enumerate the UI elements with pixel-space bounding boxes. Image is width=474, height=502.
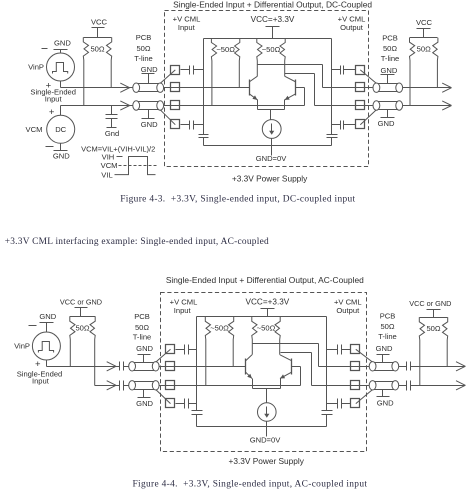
DC source VCM (47, 115, 75, 143)
wire: input line 1 (top) (61, 87, 250, 89)
svg-text:Single-Ended Input + Different: Single-Ended Input + Differential Output… (173, 0, 372, 10)
arrow on input line 1 (120, 83, 129, 92)
transmission line T2 (input bottom) (133, 101, 164, 110)
svg-text:T-line: T-line (133, 332, 152, 341)
svg-text:50Ω: 50Ω (417, 45, 431, 54)
arrow on output line 1 (442, 83, 451, 92)
svg-text:VCC: VCC (91, 17, 108, 26)
wire: VinP to input line 1 (60, 81, 62, 88)
pulse source VinP (AC figure) (32, 332, 60, 360)
capacitor from pin 4 to VCC bus (AC figure) (176, 399, 197, 409)
input pin square 4 (171, 120, 180, 129)
transmission line T3 (output top, AC figure) (369, 362, 398, 371)
ground symbol above VinP source (54, 38, 72, 52)
svg-text:+V CML: +V CML (334, 297, 362, 306)
wire and ground below VCM (53, 144, 70, 161)
wire: output line 2 (AC figure) (312, 385, 466, 387)
transmission line T3 (output top) (373, 83, 403, 92)
current source I1 (262, 120, 281, 139)
right VCC bus with decoupling capacitor (327, 39, 338, 146)
diagonal wire T2 to input pin 4 (160, 110, 175, 125)
ground below transmission line T2 (AC figure) (136, 390, 153, 409)
wire: output line 1 (AC figure) (319, 366, 466, 368)
svg-text:+: + (49, 107, 55, 118)
wire: Q2 collector to output line 2 (285, 74, 315, 106)
wire: GND bottom rail (AC figure) (197, 426, 327, 428)
input pin square 2 (AC figure) (166, 362, 175, 371)
transistor Q1 (left of diff pair) (249, 76, 257, 100)
ground above transmission line T1 (141, 65, 158, 83)
svg-text:50Ω: 50Ω (380, 322, 394, 331)
label Single-Ended Input (30, 88, 76, 104)
caption Figure 4-3 (120, 195, 355, 205)
dashed box: internal chip boundary, DC-coupled figure (165, 11, 369, 167)
resistor ~50ohm R1 (internal termination, AC figure) (205, 317, 233, 386)
svg-text:VCM: VCM (101, 161, 118, 170)
wire: line 2 to VCM source (60, 106, 62, 116)
capacitor from pin 4 to VCC bus (181, 121, 204, 130)
wire: GND bottom rail (204, 145, 332, 147)
svg-text:GND: GND (53, 151, 70, 160)
heading +3.3V CML interfacing example (5, 236, 269, 247)
capacitor from VCC bus to output pin A (332, 66, 356, 75)
svg-text:Input: Input (174, 306, 192, 315)
svg-text:50Ω: 50Ω (136, 44, 150, 53)
svg-text:DC: DC (55, 125, 66, 134)
label +V CML Output (338, 14, 366, 32)
wire: input line 2 (bottom) (61, 105, 305, 107)
ground below transmission line T4 (378, 110, 395, 129)
coupling capacitor on input line 1 (120, 362, 124, 371)
svg-text:Figure 4-3. +3.3V, Single-end: Figure 4-3. +3.3V, Single-ended input, D… (120, 195, 355, 205)
diagonal wire output pin D to T4 (AC figure) (356, 390, 373, 404)
svg-text:PCB: PCB (136, 33, 152, 42)
svg-text:+: + (35, 359, 41, 370)
wire: VCC top rail (204, 38, 332, 40)
arrow on output line 2 (442, 101, 451, 110)
transistor Q2 (right of diff pair) (285, 76, 296, 100)
label GND=0V (AC figure) (250, 436, 282, 445)
diagonal wire output pin D to T4 (360, 110, 376, 125)
svg-text:GND: GND (136, 399, 153, 408)
capacitor from VCC bus to output pin A (AC figure) (327, 345, 351, 355)
svg-text:GND: GND (141, 120, 158, 129)
wire: output line 2 (315, 105, 452, 107)
svg-text:~50Ω: ~50Ω (210, 324, 229, 333)
svg-text:50Ω: 50Ω (383, 44, 397, 53)
title: Single-Ended Input + Differential Output, AC-Coupled (166, 275, 364, 285)
label PCB 50ohm T-line (input side, AC figure) (133, 312, 152, 342)
svg-text:+V CML: +V CML (170, 297, 198, 306)
transmission line T1 (input top, AC figure) (129, 362, 159, 371)
svg-text:+V CML: +V CML (338, 14, 366, 23)
svg-text:T-line: T-line (378, 332, 397, 341)
arrow on output line 1 (AC figure) (456, 362, 465, 371)
current source I1 (AC figure) (258, 403, 277, 422)
svg-text:~50Ω: ~50Ω (216, 45, 235, 54)
left VCC bus with decoupling capacitor (199, 39, 209, 146)
wire: common emitter node (258, 100, 285, 120)
svg-text:~50Ω: ~50Ω (257, 324, 276, 333)
svg-text:VCC: VCC (416, 18, 433, 27)
arrow on input line 2 (120, 101, 129, 110)
wire: output line 1 (323, 87, 452, 89)
svg-text:Input: Input (45, 94, 63, 103)
label PCB 50ohm T-line (output side) (381, 33, 400, 63)
svg-text:+3.3V Power Supply: +3.3V Power Supply (228, 456, 304, 466)
VCC supply symbol (right outer) (416, 18, 433, 37)
label VinP (28, 63, 44, 72)
svg-text:T-line: T-line (134, 54, 153, 63)
svg-text:Input: Input (32, 377, 50, 386)
pulse source VinP (47, 53, 75, 81)
wire: Q2 base to input line 2 (AC figure) (292, 367, 301, 386)
svg-text:Gnd: Gnd (105, 129, 119, 138)
plus polarity mark at VinP (46, 81, 52, 92)
svg-text:~50Ω: ~50Ω (262, 45, 281, 54)
coupling capacitor on output line 1 (407, 362, 411, 371)
diagonal wire T2 to input pin 4 (AC figure) (156, 390, 171, 404)
right VCC bus with decoupling capacitor (AC figure) (322, 317, 333, 427)
svg-text:GND: GND (378, 119, 395, 128)
diagonal wire output pin A to T3 (AC figure) (356, 349, 373, 362)
output pin square D (AC figure) (351, 399, 360, 408)
diagonal wire T1 to input pin 1 (160, 70, 175, 84)
transistor Q1 (AC figure) (246, 355, 253, 379)
label +V CML Input (AC figure) (170, 297, 198, 315)
svg-text:VinP: VinP (28, 63, 44, 72)
VCC supply symbol (left outer) (91, 17, 108, 37)
svg-text:GND=0V: GND=0V (250, 436, 282, 445)
transmission line T2 (input bottom, AC figure) (129, 381, 159, 390)
VCC or GND supply symbol (right outer, AC figure) (409, 299, 451, 318)
resistor ~50ohm R2 (internal load, AC figure) (252, 317, 281, 355)
svg-text:Input: Input (178, 23, 196, 32)
svg-text:Output: Output (340, 23, 364, 32)
output pin square B (356, 83, 365, 92)
wire: VinP to input line 1 (AC figure) (46, 361, 48, 367)
wire: input line 2 (AC figure) (95, 385, 301, 387)
input pin square 1 (171, 66, 180, 75)
dashed box: internal chip boundary, AC-coupled figure (161, 293, 367, 452)
resistor 50ohm output termination (right outer) (410, 38, 438, 106)
arrow on input line 2 (AC figure) (107, 381, 116, 390)
resistor 50ohm input termination (left outer) (83, 37, 111, 105)
output pin square A (AC figure) (351, 345, 360, 354)
wire: Q1 collector to output line 1 (AC figure) (253, 344, 319, 367)
output pin square D (356, 120, 365, 129)
svg-text:VCM=VIL+(VIH-VIL)/2: VCM=VIL+(VIH-VIL)/2 (81, 145, 155, 154)
label VCM=VIL+(VIH-VIL)/2 and waveform (81, 145, 156, 180)
minus polarity mark below VCM (46, 146, 54, 148)
wire: current source to ground rail (AC figure) (266, 422, 268, 437)
resistor ~50ohm R1 (internal termination) (211, 38, 239, 106)
svg-text:VCC or GND: VCC or GND (409, 299, 451, 308)
VCC=+3.3V supply symbol (251, 15, 295, 39)
svg-text:50Ω: 50Ω (90, 44, 104, 53)
arrow on output line 2 (AC figure) (456, 381, 465, 390)
output pin square B (AC figure) (351, 362, 360, 371)
transmission line T4 (output bottom, AC figure) (369, 381, 398, 390)
plus polarity mark at VCM (49, 107, 55, 118)
input pin square 2 (171, 83, 180, 92)
capacitor from pin 1 to VCC bus (181, 66, 204, 75)
output pin square C (356, 101, 365, 110)
svg-text:PCB: PCB (382, 33, 398, 42)
label +V CML Output (AC figure) (334, 297, 362, 315)
plus polarity mark at VinP (AC figure) (35, 359, 41, 370)
svg-text:50Ω: 50Ω (75, 324, 89, 333)
svg-text:GND: GND (376, 344, 393, 353)
svg-text:PCB: PCB (380, 311, 396, 320)
diagonal wire T1 to input pin 1 (AC figure) (156, 349, 171, 362)
label +V CML Input (173, 14, 201, 32)
output pin square C (AC figure) (351, 381, 360, 390)
input pin square 3 (AC figure) (166, 381, 175, 390)
svg-text:GND: GND (380, 66, 397, 75)
ground above transmission line T3 (380, 66, 397, 84)
ground below transmission line T2 (141, 110, 158, 130)
left VCC bus with decoupling capacitor (AC figure) (192, 317, 203, 427)
svg-text:+3.3V CML interfacing example:: +3.3V CML interfacing example: Single-en… (5, 236, 269, 247)
label GND=0V (256, 154, 288, 163)
wire: current source to ground rail (271, 139, 273, 156)
svg-text:+V CML: +V CML (173, 14, 201, 23)
wire: Q1 collector to output line 1 (258, 65, 323, 88)
capacitor from VCC bus to output pin D (332, 121, 356, 130)
svg-text:GND: GND (136, 344, 153, 353)
svg-text:VinP: VinP (14, 342, 30, 351)
label PCB 50ohm T-line (output side, AC figure) (378, 311, 397, 341)
svg-text:VCC or GND: VCC or GND (60, 298, 102, 307)
output pin square A (356, 66, 365, 75)
capacitor from pin 1 to VCC bus (AC figure) (176, 345, 197, 355)
wire: Q2 collector to output line 2 (AC figure) (281, 353, 312, 386)
ground above transmission line T1 (AC figure) (136, 344, 153, 362)
svg-text:VCC=+3.3V: VCC=+3.3V (251, 15, 295, 24)
capacitor from VCC bus to output pin D (AC figure) (327, 399, 351, 409)
svg-text:GND: GND (54, 38, 71, 47)
resistor 50ohm output termination (right outer, AC figure) (419, 317, 447, 385)
svg-text:Single-Ended Input + Different: Single-Ended Input + Differential Output… (166, 275, 364, 285)
ground below transmission line T4 (AC figure) (377, 390, 395, 408)
label +3.3V Power Supply (AC figure) (228, 456, 304, 466)
wire: Q2 base to input line 2 (296, 88, 305, 106)
svg-text:VIL: VIL (101, 171, 112, 180)
wire: common emitter node (AC figure) (253, 379, 281, 403)
label Single-Ended Input (AC figure) (17, 369, 63, 385)
transistor Q2 (AC figure) (280, 355, 292, 379)
label PCB 50ohm T-line (input side) (134, 33, 153, 63)
minus polarity mark at VinP (AC figure) (29, 325, 37, 327)
svg-text:VCM: VCM (26, 125, 43, 134)
label VCM (26, 125, 43, 134)
svg-text:GND: GND (39, 312, 56, 321)
ground above transmission line T3 (AC figure) (376, 344, 393, 362)
coupling capacitor on output line 2 (407, 381, 411, 391)
label VinP (AC figure) (14, 342, 30, 351)
caption Figure 4-4 (133, 479, 368, 489)
wire: input line 1 (AC figure) (47, 366, 246, 368)
svg-text:50Ω: 50Ω (135, 323, 149, 332)
svg-text:GND: GND (141, 65, 158, 74)
svg-text:50Ω: 50Ω (426, 324, 440, 333)
svg-text:Output: Output (336, 306, 360, 315)
transmission line T4 (output bottom) (373, 101, 403, 110)
resistor 50ohm input termination (left outer, AC figure) (70, 317, 96, 386)
VCC or GND supply symbol (left outer, AC figure) (60, 298, 102, 317)
resistor ~50ohm R2 (internal load) (257, 38, 286, 76)
svg-text:GND: GND (377, 399, 394, 408)
svg-text:T-line: T-line (381, 54, 400, 63)
svg-text:VCC=+3.3V: VCC=+3.3V (246, 298, 290, 307)
input pin square 1 (AC figure) (166, 345, 175, 354)
ground symbol above VinP source (AC figure) (39, 312, 56, 332)
input pin square 3 (171, 101, 180, 110)
diagonal wire output pin A to T3 (360, 70, 376, 84)
bypass capacitor on line 2 with Gnd (105, 106, 119, 138)
svg-text:+3.3V Power Supply: +3.3V Power Supply (232, 174, 308, 184)
label +3.3V Power Supply (232, 174, 308, 184)
title: Single-Ended Input + Differential Output, DC-Coupled (173, 0, 372, 10)
svg-text:Figure 4-4. +3.3V, Single-end: Figure 4-4. +3.3V, Single-ended input, A… (133, 479, 368, 489)
wire: VCC top rail (AC figure) (197, 316, 327, 318)
arrow on input line 1 (AC figure) (107, 362, 116, 371)
VCC=+3.3V supply symbol (AC figure) (246, 298, 290, 317)
minus polarity mark at VinP (42, 48, 48, 50)
coupling capacitor on input line 2 (120, 381, 124, 391)
input pin square 4 (AC figure) (166, 399, 175, 408)
transmission line T1 (input top) (133, 83, 164, 92)
svg-text:GND=0V: GND=0V (256, 154, 288, 163)
svg-text:PCB: PCB (134, 312, 150, 321)
